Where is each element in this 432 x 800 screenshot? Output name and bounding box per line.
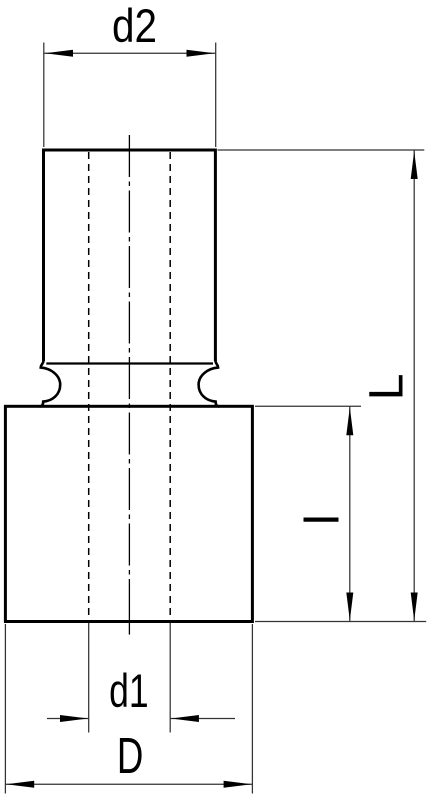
D arrow right bbox=[224, 781, 252, 788]
D dimension line bbox=[5, 783, 252, 785]
d1 leader line left bbox=[47, 718, 89, 720]
d2 extension line right bbox=[215, 43, 217, 148]
d2 dimension line bbox=[44, 52, 216, 54]
d1 arrow right (points left) bbox=[171, 715, 199, 722]
hidden hole line left bbox=[88, 152, 90, 622]
l extension line (top of big cylinder) bbox=[255, 405, 361, 407]
centerline (part axis) bbox=[128, 135, 130, 622]
svg-text:l: l bbox=[297, 514, 350, 525]
d2 arrow left bbox=[45, 50, 73, 57]
d1 extension line left bbox=[88, 623, 90, 733]
L arrow down bbox=[411, 593, 418, 621]
l dimension line bbox=[349, 406, 351, 621]
svg-text:D: D bbox=[117, 727, 144, 784]
d1 extension line right bbox=[169, 623, 171, 733]
d2 extension line left bbox=[43, 43, 45, 148]
L dimension line bbox=[413, 150, 415, 622]
hidden hole line right bbox=[169, 152, 171, 622]
svg-text:L: L bbox=[361, 374, 414, 401]
bottom extension line (shared by L and l) bbox=[255, 621, 426, 623]
L extension line (top) bbox=[218, 149, 425, 151]
D arrow left bbox=[6, 781, 34, 788]
small cylinder d2 outline bbox=[42, 150, 217, 361]
d1 arrow left (points right) bbox=[60, 715, 88, 722]
l arrow up bbox=[346, 407, 353, 435]
right undercut groove bbox=[199, 359, 220, 406]
svg-text:d1: d1 bbox=[109, 664, 149, 717]
shoulder edge line bbox=[46, 362, 213, 364]
D extension line left bbox=[4, 624, 6, 794]
L arrow up bbox=[411, 151, 418, 179]
d1 leader line right bbox=[170, 718, 235, 720]
left undercut groove bbox=[40, 359, 61, 406]
big cylinder D outline bbox=[5, 406, 252, 621]
l arrow down bbox=[346, 593, 353, 621]
d2 arrow right bbox=[187, 50, 215, 57]
D extension line right bbox=[251, 624, 253, 794]
centerline stub below base bbox=[128, 622, 130, 635]
svg-text:d2: d2 bbox=[112, 0, 157, 52]
